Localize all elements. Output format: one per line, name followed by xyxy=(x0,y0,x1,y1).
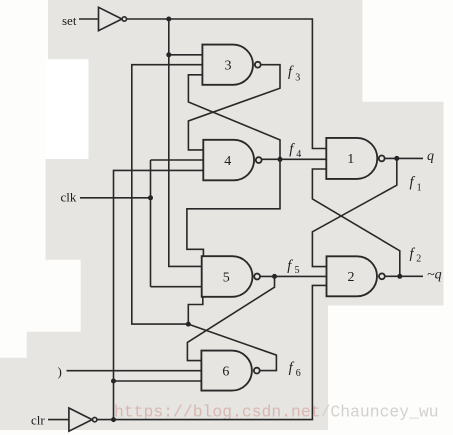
node clr junction xyxy=(111,417,116,422)
wire clk to gate4 middle input xyxy=(151,159,204,161)
wire f5 output to gate2 middle input xyxy=(260,275,327,277)
wire set branch to gate3 top input xyxy=(169,54,203,56)
svg-text:4: 4 xyxy=(296,149,301,160)
label f5 xyxy=(287,258,299,276)
svg-text:5: 5 xyxy=(223,270,230,285)
wire set input xyxy=(79,18,99,20)
wire f1 cross-couple to gate2 top input xyxy=(312,158,396,266)
svg-text:q: q xyxy=(427,149,434,164)
wire f6 node to gate5 bottom corner xyxy=(188,297,203,324)
svg-text:1: 1 xyxy=(347,152,354,167)
wire clk input xyxy=(80,197,151,199)
wire f2 cross-couple to gate1 bottom input xyxy=(312,169,399,276)
node f4 junction xyxy=(278,157,283,162)
wire set to node and down to gate1 top input xyxy=(127,19,326,149)
node f2 junction xyxy=(397,274,402,279)
wire clr vertical up to gate4 bottom input xyxy=(114,170,204,419)
svg-text:6: 6 xyxy=(296,368,301,379)
wire f3 output to gate4 top input xyxy=(188,65,280,150)
label f3 xyxy=(288,64,300,83)
wire ~q output xyxy=(385,275,423,277)
wire f4 branch to gate3 bottom input xyxy=(188,75,280,160)
svg-text:6: 6 xyxy=(222,364,229,379)
label f1 xyxy=(410,175,422,194)
wire f6 output up to node xyxy=(188,324,276,371)
node f5 junction xyxy=(272,274,277,279)
wire d input to gate6 middle input xyxy=(67,370,202,372)
nand gate 6 xyxy=(201,351,252,391)
node clk junction xyxy=(148,195,153,200)
inverter set buffer xyxy=(99,7,122,30)
svg-text:): ) xyxy=(58,364,62,379)
svg-text:clr: clr xyxy=(31,412,45,427)
node clr gate6 junction xyxy=(111,379,116,384)
wire clk to gate5 bottom input xyxy=(151,286,202,288)
node set gate3 junction xyxy=(166,52,171,57)
wire set vertical down to gate5 input xyxy=(169,19,202,266)
wire clr input xyxy=(48,419,69,421)
wire clk vertical xyxy=(150,160,152,287)
nand gate 4 xyxy=(203,140,254,181)
svg-text:~q: ~q xyxy=(427,268,442,283)
wire f6 node to gate3 middle input xyxy=(132,65,203,324)
node f6 junction xyxy=(186,322,191,327)
nand gate 1 xyxy=(326,138,377,179)
nand gate 5 xyxy=(202,256,253,297)
wire f5 branch to gate6 top input xyxy=(187,276,274,360)
label f2 xyxy=(410,246,422,265)
label f4 xyxy=(289,141,301,160)
svg-text:set: set xyxy=(62,13,77,28)
svg-text:4: 4 xyxy=(224,154,231,169)
svg-text:2: 2 xyxy=(416,254,421,265)
wire f4 branch down to gate5 top corner xyxy=(187,159,280,256)
svg-text:3: 3 xyxy=(225,59,232,74)
svg-text:1: 1 xyxy=(417,182,422,193)
nand gate 3 xyxy=(202,45,253,85)
wire f4 output to gate1 middle input xyxy=(262,158,327,160)
node f1 junction xyxy=(394,156,399,161)
label f6 xyxy=(289,360,301,379)
svg-text:https://blog.csdn.net/Chauncey: https://blog.csdn.net/Chauncey_wu xyxy=(114,403,439,422)
inverter clr buffer xyxy=(69,408,92,431)
svg-text:3: 3 xyxy=(295,73,300,84)
wire clr line right and up to gate2 bottom input xyxy=(97,285,326,419)
svg-text:clk: clk xyxy=(61,190,77,205)
wire q output xyxy=(385,157,423,159)
svg-text:5: 5 xyxy=(295,265,300,276)
wire clr branch to gate6 bottom input xyxy=(114,380,202,382)
nand gate 2 xyxy=(327,256,378,296)
node set junction xyxy=(166,17,171,22)
svg-text:2: 2 xyxy=(348,270,355,285)
